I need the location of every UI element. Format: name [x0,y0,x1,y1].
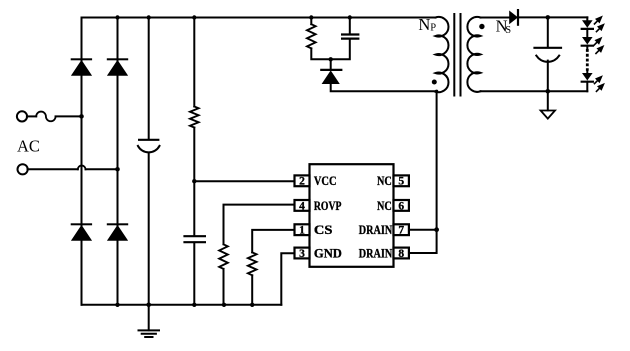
svg-text:ROVP: ROVP [314,199,342,213]
svg-text:NC: NC [377,174,392,188]
svg-text:S: S [505,25,511,36]
svg-text:5: 5 [398,176,404,188]
svg-text:AC: AC [17,137,40,156]
svg-text:CS: CS [314,223,333,237]
svg-text:DRAIN: DRAIN [359,246,392,260]
svg-text:7: 7 [398,225,404,237]
svg-text:6: 6 [398,200,404,212]
svg-text:1: 1 [299,225,305,237]
svg-text:VCC: VCC [314,174,337,188]
svg-text:NC: NC [377,199,392,213]
svg-text:DRAIN: DRAIN [359,223,392,237]
svg-text:2: 2 [299,176,305,188]
svg-text:N: N [418,15,430,34]
svg-text:P: P [430,22,436,33]
svg-text:GND: GND [314,246,342,260]
svg-text:3: 3 [299,248,305,260]
svg-text:8: 8 [398,248,404,260]
svg-text:4: 4 [299,200,305,212]
